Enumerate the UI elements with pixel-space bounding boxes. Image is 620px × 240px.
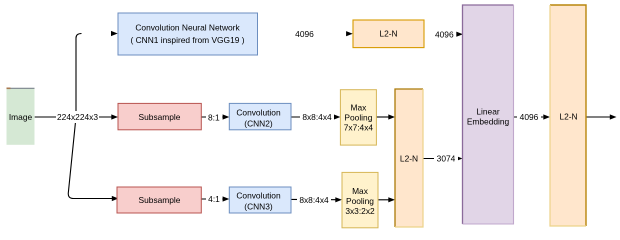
svg-text:Convolution: Convolution <box>236 191 281 201</box>
svg-text:3074: 3074 <box>437 154 456 164</box>
svg-text:Pooling: Pooling <box>346 196 374 206</box>
svg-text:Linear: Linear <box>476 106 499 116</box>
svg-text:7x7:4x4: 7x7:4x4 <box>344 123 374 133</box>
svg-text:(CNN2): (CNN2) <box>244 118 273 128</box>
svg-text:4096: 4096 <box>295 29 314 39</box>
svg-text:Image: Image <box>9 112 33 122</box>
svg-text:L2-N: L2-N <box>559 112 577 122</box>
svg-text:Pooling: Pooling <box>344 113 372 123</box>
svg-text:L2-N: L2-N <box>379 29 397 39</box>
svg-text:( CNN1 inspired from VGG19 ): ( CNN1 inspired from VGG19 ) <box>130 35 244 45</box>
svg-text:3x3:2x2: 3x3:2x2 <box>345 206 375 216</box>
svg-text:8:1: 8:1 <box>208 112 220 122</box>
svg-text:Subsample: Subsample <box>139 112 181 122</box>
svg-text:L2-N: L2-N <box>400 154 418 164</box>
svg-text:4:1: 4:1 <box>208 194 220 204</box>
svg-text:224x224x3: 224x224x3 <box>57 112 98 122</box>
svg-text:(CNN3): (CNN3) <box>244 201 273 211</box>
svg-text:Subsample: Subsample <box>139 195 181 205</box>
svg-text:8x8:4x4: 8x8:4x4 <box>299 195 329 205</box>
svg-text:Max: Max <box>350 103 367 113</box>
svg-text:4096: 4096 <box>435 29 454 39</box>
svg-text:Embedding: Embedding <box>467 116 510 126</box>
svg-text:Convolution: Convolution <box>236 108 281 118</box>
svg-text:Max: Max <box>352 186 369 196</box>
svg-text:8x8:4x4: 8x8:4x4 <box>302 112 332 122</box>
svg-text:4096: 4096 <box>520 112 539 122</box>
svg-text:Convolution Neural Network: Convolution Neural Network <box>135 23 240 33</box>
